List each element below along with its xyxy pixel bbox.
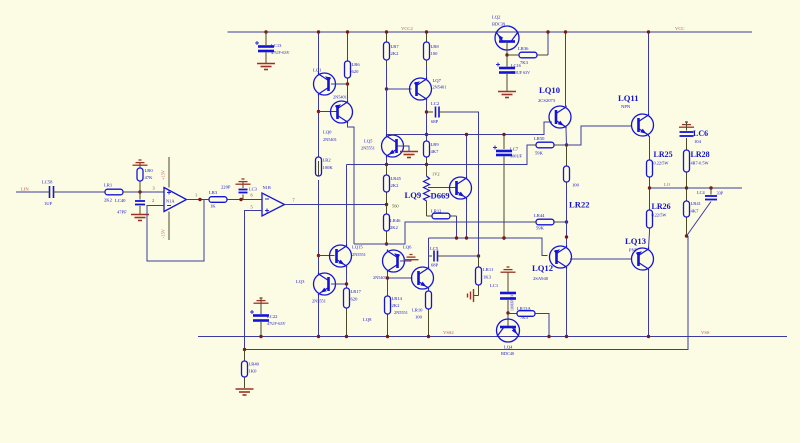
resistor LR6 [345,32,351,84]
pin LC13 stem [265,32,267,45]
wire LQ12 collector [566,268,568,337]
wire LQ1 base [331,83,348,85]
svg-text:LR8: LR8 [431,44,440,49]
power bar LR0 top [133,160,148,165]
wire LR50 right [559,144,567,146]
pin LC22 stem [260,298,262,314]
ground LC40 [131,215,149,221]
resistor LR41 [684,188,690,236]
resistor LR26 [647,210,653,232]
wire LQ15 base [319,255,335,257]
trimmer LQ9 zigzag [424,176,430,201]
junction [427,335,430,338]
svg-text:LQ3: LQ3 [296,279,305,284]
svg-text:LR28: LR28 [691,150,710,159]
resistor LR3 [205,197,231,203]
pin LC2 left lead [427,111,434,113]
svg-text:LR10: LR10 [412,308,423,313]
transistor LQ12 [550,246,572,269]
wire mid rail [347,145,533,165]
svg-text:4K7: 4K7 [691,209,700,214]
wire LQ6 collector [387,272,389,296]
svg-text:68P: 68P [431,119,439,124]
ground LC16 [498,92,516,98]
svg-text:4R7-0.5W: 4R7-0.5W [691,161,710,166]
svg-text:LR2: LR2 [323,158,332,163]
wire LR36 riser [547,32,549,55]
svg-text:100UF63V: 100UF63V [511,294,515,311]
ground LC13 [257,64,275,70]
svg-text:LQ9: LQ9 [405,190,422,200]
wire LQ11 emitter [649,136,651,160]
svg-text:LR1: LR1 [104,183,113,188]
svg-text:LQ5: LQ5 [364,139,373,144]
resistor LR12 [432,213,457,219]
junction [243,348,246,351]
pin LC4 stem [710,188,712,195]
svg-text:VCC: VCC [675,26,684,31]
wire LO line [650,187,743,189]
resistor LR8 [424,32,430,65]
svg-text:100K: 100K [323,165,334,170]
svg-text:LR13A: LR13A [517,306,531,311]
wire col318 mid [318,95,320,157]
power bar LC3 top [236,179,251,184]
wire col426 a [426,65,428,78]
svg-text:59K: 59K [536,226,545,231]
resistor LR36 [507,52,548,58]
transistor LQ1 [314,73,336,96]
wire N1A output [187,199,206,201]
op-amp N1B [262,193,285,216]
svg-text:2N5401: 2N5401 [433,85,447,90]
svg-text:LR44: LR44 [534,213,545,218]
svg-text:1: 1 [195,193,197,198]
power bar LC6 top [679,122,694,127]
transistor LQ0 [331,101,353,124]
svg-text:2N5551: 2N5551 [352,252,366,257]
svg-text:LQ8: LQ8 [363,317,372,322]
resistor LR2 [316,157,322,176]
junction [264,30,267,33]
svg-text:LR17: LR17 [351,289,362,294]
svg-text:LC58: LC58 [42,180,53,185]
junction [502,133,505,136]
resistor LR25 [647,160,653,184]
pin LC13 lower stem [265,53,267,64]
svg-text:LQ15: LQ15 [352,245,363,250]
resistor LR45 [384,165,390,205]
junction [709,186,712,189]
svg-text:2CS2073: 2CS2073 [538,98,556,103]
svg-text:2SA940: 2SA940 [533,276,549,281]
wire LQ12-LQ13 base link [570,258,632,260]
wire LR26 to LQ13 [649,232,650,248]
wire LQ15 emitter [346,267,348,288]
junction [465,133,468,136]
junction [425,30,428,33]
wire LQ9 wiper [428,187,456,189]
pin LQ4 base stem [507,313,509,326]
resistor LR13A [508,311,540,317]
junction [455,236,458,239]
pin LC5 left lead [429,255,433,257]
pin LQ2 cap stem [506,55,508,67]
junction [346,82,349,85]
svg-text:LQ13: LQ13 [625,236,646,246]
svg-text:47UF-63V: 47UF-63V [271,50,291,55]
svg-text:LQ7: LQ7 [433,78,442,83]
svg-text:LQ11: LQ11 [618,93,639,103]
transistor LQ4 [497,319,520,342]
wire LQ5 emitter [386,157,388,165]
svg-text:100UF: 100UF [510,154,523,159]
junction [345,335,348,338]
wire LQ15 collector [346,165,348,246]
wire D669 emitter [466,199,468,238]
junction [317,110,320,113]
wire N1A feedback [147,200,204,262]
svg-text:LC5: LC5 [430,246,439,251]
wire LQ6 base [400,260,411,261]
junction [259,335,262,338]
junction [385,242,388,245]
svg-text:LC22: LC22 [267,314,278,319]
wire LQ11 collector [648,32,650,114]
svg-text:LC1: LC1 [490,283,499,288]
svg-text:7K3: 7K3 [520,315,529,320]
wire LQ5 base to gnd [398,146,410,151]
pin LC5 right lead [438,255,446,257]
junction [647,335,650,338]
svg-text:1K0: 1K0 [249,369,258,374]
svg-text:LR9: LR9 [431,142,440,147]
pin LC1 stem [507,272,509,292]
capacitor LC4 [705,196,717,200]
svg-text:LR46: LR46 [390,218,401,223]
svg-text:LR11: LR11 [483,267,494,272]
transistor LQ8 [412,267,434,290]
pin LC6-LR28 [686,138,688,150]
svg-text:2N5401: 2N5401 [373,275,387,280]
svg-text:LR3: LR3 [209,190,218,195]
svg-text:68P: 68P [431,263,439,268]
svg-text:LIN: LIN [21,187,29,192]
junction [385,203,388,206]
wire col386 b [386,89,388,135]
svg-text:LQ4: LQ4 [504,345,513,350]
svg-text:NPN: NPN [621,104,631,109]
junction [138,190,141,193]
junction [685,234,688,237]
pin LC7 stem [503,135,505,150]
svg-text:2N5551: 2N5551 [361,146,375,151]
resistor LR11 [476,256,482,296]
pin LC22 lower stem [260,322,262,337]
wire LR25 to LO [649,184,651,210]
power bar LQ6 base [404,255,419,260]
wire LQ0 collector jog [348,123,355,244]
wire lower VSS return [245,236,689,350]
capacitor LC1 [500,293,516,299]
wire LC5 col [428,238,430,267]
junction [547,335,550,338]
power bar LC22 top [254,298,269,303]
wire LR3 to N1B [231,199,262,201]
svg-text:N1A: N1A [166,199,175,204]
transistor LQ6 [383,250,405,273]
svg-text:0.22/5W: 0.22/5W [654,161,670,166]
svg-text:2N5401: 2N5401 [323,137,337,142]
junction [502,236,505,239]
wire LR1 to opamp [127,191,164,193]
junction [647,30,650,33]
svg-text:47UF-63V: 47UF-63V [267,321,287,326]
svg-text:LR0: LR0 [145,168,154,173]
svg-text:VCC2: VCC2 [401,26,413,31]
junction [345,282,348,285]
junction [465,236,468,239]
junction [317,30,320,33]
transistor LQ13 [632,248,654,271]
pin LR11 gnd lead [474,295,479,297]
resistor LR7 [384,32,390,65]
resistor LR14 [385,296,391,337]
svg-text:LQ2: LQ2 [492,15,501,20]
svg-text:620: 620 [351,297,359,302]
svg-text:33P: 33P [717,191,724,196]
junction [385,30,388,33]
svg-text:D669: D669 [431,191,450,201]
svg-text:2N5551: 2N5551 [394,310,408,315]
transistor LQ15 [330,245,352,268]
svg-text:LC4: LC4 [697,190,705,195]
svg-text:LC16: LC16 [511,63,522,68]
junction [506,311,509,314]
svg-text:100UF 63V: 100UF 63V [511,70,530,75]
svg-text:47PF: 47PF [117,210,127,215]
wire LQ0 base [319,111,337,113]
wire LQ10 collector [565,32,567,106]
capacitor LC22 [250,310,269,321]
svg-text:-15V: -15V [161,228,166,238]
pin LQ2 base stem [506,42,508,56]
capacitor LC3 [239,190,248,193]
svg-text:100: 100 [431,51,439,56]
svg-text:LR25: LR25 [654,150,673,159]
svg-text:104: 104 [694,139,702,144]
resistor LR50 [532,142,559,148]
junction [385,163,388,166]
junction [317,335,320,338]
resistor LR10 [426,289,432,337]
junction [425,133,428,136]
pin LC7 lower stem [503,157,505,239]
junction [425,110,428,113]
svg-text:2K2: 2K2 [104,198,113,203]
svg-text:LC13: LC13 [271,43,282,48]
ground LR40 [236,389,254,395]
svg-text:1K3: 1K3 [483,275,492,280]
capacitor LC58 [50,186,54,198]
junction [385,87,388,90]
junction [239,198,242,201]
wire LC2 to col478 [446,112,479,256]
wire col318 lower [318,180,320,273]
svg-text:LR41: LR41 [691,201,702,206]
junction [386,276,389,279]
wire LR12 down [456,216,458,238]
wire LQ3 base [331,283,347,285]
wire LR13A right [540,314,549,337]
transistor LQ9 D669 [450,177,472,200]
svg-text:2K2: 2K2 [392,303,401,308]
resistor LR22 [564,145,570,186]
junction [502,236,505,239]
resistor LR46 [384,205,390,245]
wire base rail y134 [387,122,553,135]
svg-text:LR22: LR22 [569,200,590,210]
svg-text:LR45: LR45 [391,176,402,181]
svg-text:LQ0: LQ0 [323,130,332,135]
resistor LR9 [424,141,430,165]
resistor LR1 [101,189,127,195]
junction [648,186,651,189]
wire col386 a [386,65,388,89]
wire LQ13 collector [648,270,650,337]
wire to LR1 [57,191,101,193]
svg-text:VSS2: VSS2 [443,330,454,335]
svg-text:LR12: LR12 [431,209,442,214]
transistor LQ7 [410,78,432,101]
junction [565,220,568,223]
svg-text:LC7: LC7 [510,147,519,152]
transistor LQ10 [549,106,571,129]
pin LC2 right lead [439,111,446,113]
junction [386,335,389,338]
resistor LR40 [242,350,248,389]
wire input [16,191,46,193]
wire LQ7 base [387,88,412,90]
pin LR12 elbow [426,201,428,216]
capacitor LC5 [434,251,438,262]
pin LC3 stem [242,195,244,200]
wire VCC rail [228,31,753,33]
pin LC16 lower stem [506,74,508,91]
junction [546,30,549,33]
capacitor LC2 [436,107,440,118]
transistor LQ5 [382,135,404,158]
svg-text:LR7: LR7 [391,44,400,49]
ground LQ5 base [400,152,418,158]
resistor LR17 [344,288,350,337]
junction [198,198,201,201]
junction [565,143,568,146]
junction [564,30,567,33]
svg-text:620: 620 [352,69,360,74]
junction [505,53,508,56]
resistor LR28 [684,150,690,188]
svg-text:59K: 59K [535,151,544,156]
svg-text:VSS: VSS [701,330,710,335]
junction [317,254,320,257]
svg-text:+15V: +15V [161,169,166,180]
wire VSS2/VSS rail [198,336,787,338]
ground LR11 [473,289,475,302]
svg-text:0.22/5W: 0.22/5W [652,213,668,218]
svg-text:2K2: 2K2 [391,51,400,56]
svg-text:7K3: 7K3 [520,60,529,65]
wire col426 b [426,100,428,141]
pin LC6 stem [686,122,688,131]
svg-text:47K: 47K [145,175,154,180]
pin LC40 lower stem [139,206,141,214]
wire LQ3 emitter [318,295,320,337]
svg-text:2N5401: 2N5401 [333,95,347,100]
capacitor LC16 [496,63,515,73]
pin LC3 upper stem [242,181,244,188]
capacitor LC40 [135,201,145,205]
svg-text:LQ10: LQ10 [539,85,560,95]
svg-text:LC3: LC3 [249,187,258,192]
svg-text:1V2: 1V2 [432,172,440,177]
svg-text:BDC40: BDC40 [501,351,514,356]
wire D669 collector [466,135,468,178]
wire N1B output [285,204,387,206]
wire LR44 right [559,221,567,223]
wire LC5 to LR11 [445,255,479,257]
wire vas bus y238 [429,238,548,256]
svg-text:1UF: 1UF [44,201,53,206]
svg-text:LQ6: LQ6 [403,245,412,250]
junction [565,235,568,238]
svg-text:LC40: LC40 [115,198,126,203]
junction [565,335,568,338]
transistor LQ3 [314,273,336,296]
svg-text:2: 2 [152,198,154,203]
wire fb y244 [354,222,531,244]
junction [477,254,480,257]
resistor LR0 [137,163,143,192]
svg-text:LR6: LR6 [352,62,361,67]
wire col566 [566,186,568,246]
svg-text:100: 100 [415,315,423,320]
svg-text:100: 100 [572,183,580,188]
junction [346,30,349,33]
svg-text:LC2: LC2 [431,101,440,106]
capacitor LC7 [493,146,512,156]
svg-text:LO: LO [664,182,671,187]
svg-text:LR36: LR36 [518,46,529,51]
wire LQ10 emitter [565,128,568,145]
svg-text:1K: 1K [210,204,216,209]
svg-text:LQ1: LQ1 [313,68,322,73]
svg-text:560: 560 [392,204,399,209]
capacitor LC6 [680,132,694,136]
svg-text:LR14: LR14 [392,296,403,301]
svg-text:LR50: LR50 [534,136,545,141]
pin LC58 leads [46,191,50,193]
svg-text:2K2: 2K2 [390,225,399,230]
svg-text:5: 5 [251,205,253,210]
pin N1A power pins [168,157,170,188]
svg-text:4K7: 4K7 [431,149,440,154]
capacitor LC13 [255,41,274,51]
transistor LQ11 [632,114,654,137]
wire LC4 diagonal [687,202,712,237]
svg-text:LC6: LC6 [693,129,708,138]
wire N1B plus input [245,211,263,350]
